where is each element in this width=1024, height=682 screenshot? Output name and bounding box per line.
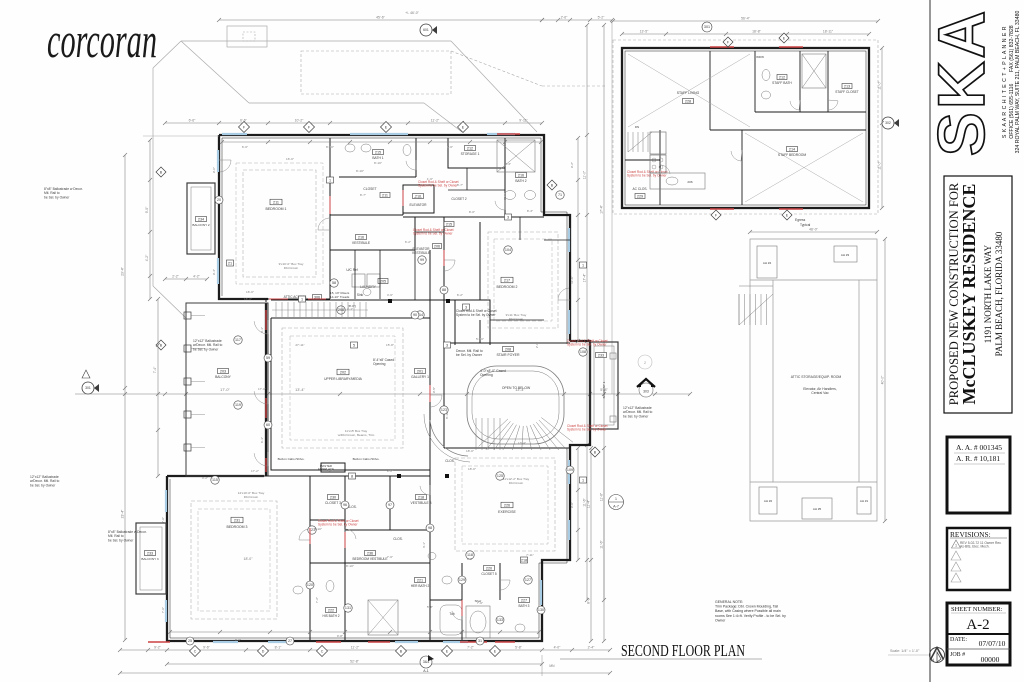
svg-text:11'-6": 11'-6" xyxy=(570,276,574,284)
svg-text:System to be Sel. by Owner: System to be Sel. by Owner xyxy=(627,174,667,178)
staff wing roof dashed outline xyxy=(613,40,878,214)
svg-text:201: 201 xyxy=(417,370,423,374)
svg-text:4'-1": 4'-1" xyxy=(347,307,353,311)
staff right dim xyxy=(881,48,883,208)
roof ridge dashed xyxy=(301,51,451,94)
svg-text:U/C Ref: U/C Ref xyxy=(346,268,357,272)
svg-text:99: 99 xyxy=(420,258,424,262)
svg-text:226: 226 xyxy=(504,504,510,508)
svg-text:227: 227 xyxy=(521,599,527,603)
svg-text:8'-7": 8'-7" xyxy=(457,183,463,187)
svg-text:8'-10": 8'-10" xyxy=(326,145,334,149)
bottom overall dim xyxy=(167,663,542,665)
svg-text:216: 216 xyxy=(358,236,364,240)
fixtures south band xyxy=(326,581,334,592)
svg-text:208: 208 xyxy=(505,348,511,352)
svg-text:SECOND FLOOR PLAN: SECOND FLOOR PLAN xyxy=(621,641,745,660)
svg-text:STAFF BATH: STAFF BATH xyxy=(772,81,792,85)
extra center partitions xyxy=(355,168,570,320)
vestibule labels xyxy=(356,235,367,240)
svg-text:00000: 00000 xyxy=(981,655,1000,664)
svg-text:1: 1 xyxy=(582,264,584,268)
svg-text:303: 303 xyxy=(643,390,649,394)
svg-text:56'-4": 56'-4" xyxy=(741,17,750,21)
svg-text:A-7: A-7 xyxy=(613,505,619,509)
svg-text:System to be Sel. by Owner: System to be Sel. by Owner xyxy=(456,313,496,317)
svg-text:52'-8": 52'-8" xyxy=(350,660,359,664)
svg-text:16'-0": 16'-0" xyxy=(246,290,254,294)
svg-text:VESTIBULE: VESTIBULE xyxy=(352,241,371,245)
svg-text:206: 206 xyxy=(687,180,692,184)
svg-text:117: 117 xyxy=(235,338,241,342)
right vertical dimensions xyxy=(586,25,588,600)
bedroom 1 tray and label xyxy=(243,170,316,277)
svg-text:Central Vac: Central Vac xyxy=(811,391,829,395)
svg-text:13'-4": 13'-4" xyxy=(518,441,526,445)
svg-text:1: 1 xyxy=(301,298,303,302)
elevator label xyxy=(413,194,424,199)
wall inner lines xyxy=(170,138,567,638)
svg-text:9'-10": 9'-10" xyxy=(414,196,422,200)
chimney xyxy=(227,26,267,47)
bedroom 2 tray and label xyxy=(488,232,558,328)
svg-text:601: 601 xyxy=(423,28,429,32)
bath 2 right label fixtures xyxy=(516,173,527,178)
svg-text:8: 8 xyxy=(351,475,353,479)
svg-text:9'-0": 9'-0" xyxy=(145,206,149,213)
stair curved landing arc xyxy=(430,420,468,456)
svg-text:60: 60 xyxy=(266,423,270,427)
svg-text:1'-6": 1'-6" xyxy=(427,177,433,181)
svg-text:7'-6": 7'-6" xyxy=(161,517,165,523)
svg-text:D: D xyxy=(262,649,265,653)
svg-text:228: 228 xyxy=(685,100,691,104)
svg-text:BATH 2: BATH 2 xyxy=(515,179,526,183)
svg-text:5'-10": 5'-10" xyxy=(476,337,484,341)
svg-text:59: 59 xyxy=(266,356,270,360)
more wall tags circles xyxy=(264,354,272,362)
small circle marker bottom xyxy=(420,656,432,668)
section marker 1/A-7 xyxy=(609,495,624,510)
attic stair xyxy=(738,294,740,325)
svg-text:JOB #: JOB # xyxy=(950,652,965,658)
upper window dim string xyxy=(165,122,542,124)
stair foyer open to below oval xyxy=(467,366,564,444)
staff circ marker xyxy=(702,22,712,32)
svg-text:BATH 3: BATH 3 xyxy=(519,604,530,608)
svg-text:8'-10": 8'-10" xyxy=(356,169,364,173)
svg-text:8'-0": 8'-0" xyxy=(587,596,591,604)
svg-text:CLOSET 5: CLOSET 5 xyxy=(481,572,497,576)
svg-text:AH #5: AH #5 xyxy=(813,507,822,511)
svg-text:131: 131 xyxy=(345,606,351,610)
svg-text:6'-0": 6'-0" xyxy=(327,469,333,473)
svg-text:5'-2": 5'-2" xyxy=(598,16,606,20)
svg-text:2'-6": 2'-6" xyxy=(561,16,569,20)
svg-text:120: 120 xyxy=(307,583,313,587)
svg-text:ATTIC STORAGE/EQUIP. ROOM: ATTIC STORAGE/EQUIP. ROOM xyxy=(791,375,842,379)
svg-text:1: 1 xyxy=(582,479,584,483)
svg-text:11'-2": 11'-2" xyxy=(431,119,440,123)
svg-text:45'-6": 45'-6" xyxy=(376,16,385,20)
svg-text:AC CLOS.: AC CLOS. xyxy=(633,187,648,191)
svg-text:7'-6": 7'-6" xyxy=(387,555,393,559)
AA number box xyxy=(947,437,1010,513)
svg-text:Dbl.Crown: Dbl.Crown xyxy=(509,481,524,485)
svg-text:MN: MN xyxy=(549,664,555,668)
svg-text:218: 218 xyxy=(521,559,527,563)
svg-text:be Sel. by Owner: be Sel. by Owner xyxy=(193,347,219,351)
svg-text:8'-7": 8'-7" xyxy=(360,193,366,197)
svg-text:324 ROYAL PALM WAY, SUITE 211,: 324 ROYAL PALM WAY, SUITE 211, PALM BEAC… xyxy=(1015,11,1021,154)
revisions box xyxy=(947,528,1010,590)
svg-text:222: 222 xyxy=(328,609,334,613)
svg-text:1: 1 xyxy=(329,179,331,183)
svg-text:203: 203 xyxy=(220,370,226,374)
upper library tray and label xyxy=(282,328,403,448)
svg-text:214: 214 xyxy=(789,148,795,152)
svg-text:13'-4": 13'-4" xyxy=(295,388,305,392)
staff stairs upper left xyxy=(627,132,629,152)
svg-text:BALCONY 3: BALCONY 3 xyxy=(141,557,159,561)
attic access stair treads xyxy=(275,302,277,317)
mid horizontal dimension line xyxy=(75,393,690,395)
svg-text:229: 229 xyxy=(637,195,643,199)
svg-text:System to be Sel. by Owner: System to be Sel. by Owner xyxy=(418,184,458,188)
svg-text:25: 25 xyxy=(188,639,192,643)
svg-text:216: 216 xyxy=(518,174,524,178)
bottom inner dim string xyxy=(170,631,539,633)
red door header marks xyxy=(316,641,341,643)
svg-text:CLOS.: CLOS. xyxy=(393,537,403,541)
svg-text:PALM BEACH, FLORIDA 33480: PALM BEACH, FLORIDA 33480 xyxy=(994,231,1004,356)
svg-text:C: C xyxy=(194,649,197,653)
svg-text:98: 98 xyxy=(428,526,432,530)
svg-text:16'-0": 16'-0" xyxy=(244,297,252,301)
svg-text:71: 71 xyxy=(558,193,562,197)
svg-text:Base, with Casing where Possib: Base, with Casing where Possible all mai… xyxy=(715,609,781,613)
svg-text:8'-10": 8'-10" xyxy=(314,527,322,531)
svg-text:6'-2": 6'-2" xyxy=(457,293,463,297)
north arrow xyxy=(930,648,945,663)
svg-text:6'-0": 6'-0" xyxy=(242,145,248,149)
svg-text:CLOSET: CLOSET xyxy=(363,187,376,191)
svg-text:WDW: WDW xyxy=(756,55,764,59)
svg-text:8'-0": 8'-0" xyxy=(469,210,475,214)
svg-text:STAFF CLOSET: STAFF CLOSET xyxy=(835,90,859,94)
balcony 203 large open left xyxy=(186,303,268,476)
svg-text:7'-11": 7'-11" xyxy=(526,553,534,557)
svg-text:be Sel. by Owner: be Sel. by Owner xyxy=(30,483,56,487)
svg-text:3: 3 xyxy=(446,344,448,348)
svg-text:7'-2": 7'-2" xyxy=(315,597,319,603)
svg-text:Owner: Owner xyxy=(715,618,726,622)
svg-text:CLOS.: CLOS. xyxy=(445,459,455,463)
staff shower X xyxy=(802,54,826,88)
svg-text:6'-2": 6'-2" xyxy=(405,240,411,244)
svg-text:Trim Package: Dbl. Crown Mould: Trim Package: Dbl. Crown Moulding, Tall xyxy=(715,605,778,609)
svg-text:HIS BATH 2: HIS BATH 2 xyxy=(322,614,339,618)
svg-text:3: 3 xyxy=(465,306,467,310)
svg-text:2'-4": 2'-4" xyxy=(588,646,596,650)
svg-text:133: 133 xyxy=(497,618,503,622)
svg-text:18'-0": 18'-0" xyxy=(466,449,474,453)
svg-text:AH #3: AH #3 xyxy=(841,253,850,257)
svg-text:11'-0": 11'-0" xyxy=(878,161,882,170)
svg-text:9'-11": 9'-11" xyxy=(519,119,528,123)
svg-text:9'-2": 9'-2" xyxy=(570,162,574,168)
svg-text:3: 3 xyxy=(507,216,509,220)
marker 303 diamond right xyxy=(639,383,653,397)
svg-text:McCLUSKEY RESIDENCE: McCLUSKEY RESIDENCE xyxy=(959,184,979,405)
svg-text:18'-0": 18'-0" xyxy=(468,467,476,471)
svg-text:Opening: Opening xyxy=(373,362,386,366)
svg-text:212: 212 xyxy=(467,147,473,151)
svg-text:21: 21 xyxy=(228,262,232,266)
elevation marker 601 xyxy=(420,24,432,36)
svg-text:9'-4": 9'-4" xyxy=(212,269,216,275)
staff dim top xyxy=(613,20,878,22)
svg-text:Built-in Cabs./Shlvs.: Built-in Cabs./Shlvs. xyxy=(353,457,380,461)
svg-text:Opening: Opening xyxy=(480,373,493,377)
svg-text:58: 58 xyxy=(332,281,336,285)
svg-text:corcoran: corcoran xyxy=(47,12,157,68)
roof outline main house xyxy=(181,40,451,42)
svg-text:GENERAL NOTE:: GENERAL NOTE: xyxy=(715,600,743,604)
svg-text:9'-0": 9'-0" xyxy=(212,167,216,173)
svg-text:N: N xyxy=(931,658,934,663)
svg-text:130: 130 xyxy=(538,608,544,612)
staff wing interior walls xyxy=(625,51,866,205)
title block separator lines xyxy=(929,0,931,682)
svg-text:202: 202 xyxy=(340,371,346,375)
svg-text:127: 127 xyxy=(525,578,531,582)
svg-text:A. A. # 001345: A. A. # 001345 xyxy=(956,443,1002,452)
svg-text:OPEN TO BELOW: OPEN TO BELOW xyxy=(502,386,531,390)
main outer wall upper wing xyxy=(167,135,590,641)
svg-text:90: 90 xyxy=(413,313,417,317)
svg-text:215: 215 xyxy=(375,151,381,155)
svg-text:S K A A R C H I T E C T +: S K A A R C H I T E C T + P L A N N E R xyxy=(1002,26,1008,138)
svg-text:w/Dbl.Crown, Beams, Trim: w/Dbl.Crown, Beams, Trim xyxy=(338,433,375,437)
staff kitchen xyxy=(650,132,666,154)
svg-text:9'-6": 9'-6" xyxy=(203,646,211,650)
svg-text:302: 302 xyxy=(885,121,891,125)
top dimension line xyxy=(219,19,542,21)
svg-text:STORAGE 1: STORAGE 1 xyxy=(461,152,480,156)
svg-text:1191 NORTH LAKE WAY: 1191 NORTH LAKE WAY xyxy=(983,244,993,343)
svg-text:DATE:: DATE: xyxy=(950,637,967,643)
svg-text:Egress: Egress xyxy=(795,218,806,222)
svg-text:9'-6": 9'-6" xyxy=(235,638,241,642)
svg-text:A. R. # 10,181: A. R. # 10,181 xyxy=(956,454,1000,463)
staff door arcs xyxy=(731,151,741,161)
svg-text:301: 301 xyxy=(85,386,91,390)
svg-text:115: 115 xyxy=(212,478,218,482)
svg-text:AH #1: AH #1 xyxy=(860,499,869,503)
svg-text:48'-0": 48'-0" xyxy=(809,228,818,232)
svg-text:31: 31 xyxy=(478,639,482,643)
svg-text:97: 97 xyxy=(388,503,392,507)
svg-text:VESTIBULE 3: VESTIBULE 3 xyxy=(411,501,432,505)
svg-text:4'-6": 4'-6" xyxy=(387,293,393,297)
svg-text:20: 20 xyxy=(217,198,221,202)
small dims near wing xyxy=(165,278,207,280)
svg-text:be Sel. by Owner: be Sel. by Owner xyxy=(44,195,70,199)
south band labels xyxy=(328,495,339,500)
svg-text:Dbl.Crown: Dbl.Crown xyxy=(244,495,259,499)
svg-text:2: 2 xyxy=(644,361,646,365)
sheet number box xyxy=(947,603,1010,665)
svg-text:8'-10": 8'-10" xyxy=(374,161,382,165)
svg-text:217: 217 xyxy=(504,279,510,283)
svg-text:4'-2": 4'-2" xyxy=(193,275,201,279)
upper inner dim string xyxy=(222,141,541,143)
svg-text:129: 129 xyxy=(459,578,465,582)
svg-text:233: 233 xyxy=(147,552,153,556)
svg-text:221: 221 xyxy=(417,579,423,583)
svg-text:ELEVATOR: ELEVATOR xyxy=(409,203,427,207)
svg-text:AH #4: AH #4 xyxy=(763,261,772,265)
svg-text:11'-6": 11'-6" xyxy=(600,492,604,501)
svg-text:11'-0": 11'-0" xyxy=(583,170,587,179)
svg-text:16'-0": 16'-0" xyxy=(286,157,294,161)
svg-text:7'-6": 7'-6" xyxy=(161,607,165,613)
attic dims xyxy=(750,231,877,233)
svg-text:4'-1": 4'-1" xyxy=(260,327,264,333)
window glazing blue marks xyxy=(222,133,247,135)
svg-text:2'-0": 2'-0" xyxy=(535,342,539,348)
svg-text:EXERCISE: EXERCISE xyxy=(498,510,516,514)
staff window marks red xyxy=(710,46,734,48)
svg-text:Sink: Sink xyxy=(357,293,364,297)
svg-text:BEDROOM 2: BEDROOM 2 xyxy=(496,285,517,289)
extra dim string left inner xyxy=(149,140,151,299)
svg-text:5'-8": 5'-8" xyxy=(515,646,523,650)
svg-text:233: 233 xyxy=(598,354,604,358)
bath 1 label and fixtures xyxy=(373,150,384,155)
svg-text:9'-2": 9'-2" xyxy=(154,646,162,650)
svg-text:BEDROOM 1: BEDROOM 1 xyxy=(265,207,286,211)
svg-text:HER BATH 2: HER BATH 2 xyxy=(411,584,430,588)
left eave line to wall xyxy=(143,135,219,137)
svg-text:15'-8": 15'-8" xyxy=(386,343,394,347)
svg-text:7'-6": 7'-6" xyxy=(477,601,483,605)
svg-text:System to be Sel. by Owner: System to be Sel. by Owner xyxy=(318,523,358,527)
svg-text:17'-2": 17'-2" xyxy=(251,469,259,473)
left vertical dimension xyxy=(124,155,126,640)
bottom dimension string xyxy=(120,649,610,651)
svg-text:AH #2: AH #2 xyxy=(764,499,773,503)
svg-text:298: 298 xyxy=(338,308,344,312)
staff wing outer walls xyxy=(622,48,869,208)
gallery 1 label xyxy=(415,369,426,374)
svg-text:8'-3": 8'-3" xyxy=(505,162,511,166)
laundry washer dryer xyxy=(352,274,365,287)
svg-text:8'-2": 8'-2" xyxy=(387,469,393,473)
door swing arcs xyxy=(254,321,268,334)
svg-text:UPPER LIBRARY/MEDIA: UPPER LIBRARY/MEDIA xyxy=(324,377,362,381)
svg-text:11'-0": 11'-0" xyxy=(878,81,882,90)
svg-text:7'-2": 7'-2" xyxy=(467,646,475,650)
project title box xyxy=(944,176,1012,413)
svg-text:11'-6": 11'-6" xyxy=(600,540,604,549)
svg-text:125: 125 xyxy=(497,474,503,478)
svg-text:211: 211 xyxy=(273,201,279,205)
svg-text:18'-8": 18'-8" xyxy=(752,30,761,34)
bottom diamonds xyxy=(190,646,201,657)
svg-text:STAFF LIVING: STAFF LIVING xyxy=(677,91,700,95)
balcony 1 right of stair foyer xyxy=(590,342,618,429)
svg-text:1: 1 xyxy=(955,544,957,548)
svg-text:17'-4": 17'-4" xyxy=(600,204,604,213)
svg-text:218: 218 xyxy=(418,496,424,500)
staff bath fixtures xyxy=(762,70,770,81)
svg-text:A-1: A-1 xyxy=(423,669,429,673)
svg-text:211: 211 xyxy=(382,194,388,198)
svg-text:230: 230 xyxy=(330,496,336,500)
svg-text:9'-6": 9'-6" xyxy=(570,502,574,508)
extra door jamb red marks xyxy=(329,196,331,214)
svg-text:9'-5": 9'-5" xyxy=(432,387,436,393)
svg-text:23'-4": 23'-4" xyxy=(121,509,125,518)
svg-text:109: 109 xyxy=(567,468,573,472)
svg-text:119: 119 xyxy=(235,403,241,407)
svg-text:11'-2": 11'-2" xyxy=(351,646,360,650)
svg-text:System to be Sel. by Owner: System to be Sel. by Owner xyxy=(567,343,607,347)
svg-text:14-10" Treads: 14-10" Treads xyxy=(330,295,350,299)
svg-text:23'-4": 23'-4" xyxy=(121,266,125,275)
svg-text:Typical: Typical xyxy=(800,223,811,227)
svg-text:CLOSET 3: CLOSET 3 xyxy=(325,501,341,505)
right inner dim string xyxy=(577,138,579,341)
svg-text:As-Blts, Elec. Mech.: As-Blts, Elec. Mech. xyxy=(960,545,990,549)
svg-text:STAIR FOYER: STAIR FOYER xyxy=(496,353,520,357)
svg-text:8'-10": 8'-10" xyxy=(346,564,354,568)
storage 1 label xyxy=(465,146,476,151)
stair bottom run xyxy=(499,418,501,450)
svg-text:be Sel. by Owner: be Sel. by Owner xyxy=(456,353,483,357)
bedroom 3 tray label xyxy=(191,501,277,619)
interior partition walls xyxy=(264,138,570,641)
wall diamonds xyxy=(547,180,557,190)
svg-text:rooms See 1:4=ft. Verify Profi: rooms See 1:4=ft. Verify Profile - to be… xyxy=(715,614,786,618)
svg-text:108: 108 xyxy=(580,350,586,354)
svg-text:STAFF BEDROOM: STAFF BEDROOM xyxy=(778,153,806,157)
svg-text:206: 206 xyxy=(434,245,440,249)
svg-text:BEDROOM 3: BEDROOM 3 xyxy=(226,525,247,529)
balcony 2 upper-left small xyxy=(187,183,215,254)
svg-text:231: 231 xyxy=(234,519,240,523)
svg-text:104: 104 xyxy=(505,248,511,252)
svg-text:1: 1 xyxy=(615,497,617,501)
svg-text:C: C xyxy=(321,649,324,653)
svg-text:07/07/10: 07/07/10 xyxy=(979,639,1006,648)
svg-text:40'-0": 40'-0" xyxy=(881,375,885,384)
svg-text:BATH 1: BATH 1 xyxy=(372,156,383,160)
svg-text:4'-2": 4'-2" xyxy=(145,254,149,261)
svg-text:A-2: A-2 xyxy=(966,617,989,633)
svg-text:System to be Sel. by Owner: System to be Sel. by Owner xyxy=(567,428,607,432)
svg-text:5: 5 xyxy=(353,344,355,348)
svg-text:BEDROOM VESTIBULE: BEDROOM VESTIBULE xyxy=(353,557,388,561)
svg-text:Built-in Cabs./Shlvs.: Built-in Cabs./Shlvs. xyxy=(278,457,305,461)
svg-text:27: 27 xyxy=(288,639,292,643)
svg-text:18'-11": 18'-11" xyxy=(823,30,834,34)
svg-text:8'-3": 8'-3" xyxy=(527,209,533,213)
svg-text:BALCONY: BALCONY xyxy=(215,375,232,379)
svg-text:11'-4": 11'-4" xyxy=(587,499,591,508)
